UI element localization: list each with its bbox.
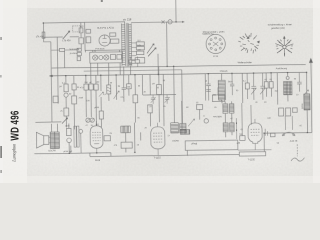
svg-text:Ausf. Bl: Ausf. Bl xyxy=(290,140,298,143)
node antenna drop xyxy=(42,23,44,37)
coil pair upper xyxy=(223,104,234,114)
dial cord line xyxy=(131,21,184,23)
column x108 coil blob xyxy=(108,75,110,85)
trimmer caps right pair 2 xyxy=(260,73,266,100)
trimmer arrow x101 xyxy=(99,92,104,97)
wires to IF coils xyxy=(174,66,183,123)
column x159 resistor 05 xyxy=(158,67,160,85)
svg-text:Schalterstellung v. hinten: Schalterstellung v. hinten xyxy=(268,23,293,26)
svg-text:μF/W 4μF: μF/W 4μF xyxy=(63,150,73,153)
column x205 xyxy=(204,74,206,101)
trimmer caps right pair 1 xyxy=(251,73,257,100)
wire coil to low rail xyxy=(306,72,309,132)
box Regl xyxy=(121,142,132,148)
IF can between V2 V3 xyxy=(212,95,224,102)
V1 electrodes xyxy=(92,121,101,153)
wire V3 anode to bus xyxy=(242,103,252,136)
wire box drop xyxy=(186,150,188,155)
caps pair x208 xyxy=(206,74,211,101)
dashed box fuse xyxy=(73,26,81,32)
mains transformer T1 left winding xyxy=(121,23,125,65)
tiny value labels xyxy=(36,16,305,164)
column x277 xyxy=(276,73,278,105)
wire drop x263 xyxy=(263,133,265,151)
speaker jack arc xyxy=(282,132,295,136)
socket pins xyxy=(208,37,222,51)
svg-text:PTR 0026: PTR 0026 xyxy=(95,47,105,50)
paper background xyxy=(0,0,320,183)
resistor block left of psu 2 xyxy=(77,53,81,56)
trimmer arrow x190 xyxy=(188,119,195,127)
wire to pot xyxy=(44,36,63,38)
trimmer 2 xyxy=(165,95,170,104)
svg-text:170 450: 170 450 xyxy=(62,39,71,42)
comps above jack xyxy=(279,108,284,116)
column x150 resistor xyxy=(149,75,151,95)
IF transformer coil mid xyxy=(221,74,223,81)
svg-text:U4/AB: U4/AB xyxy=(172,139,179,142)
caps right of V3 xyxy=(265,129,267,136)
wire selector to bus xyxy=(157,54,159,75)
wires speaker to OT xyxy=(49,124,58,143)
coil pair lower xyxy=(223,123,234,132)
wire dial drop xyxy=(166,22,169,66)
field coil hatched xyxy=(304,94,310,110)
band switch cluster 2 radial xyxy=(275,36,293,56)
column x135 resistor xyxy=(134,75,136,95)
V2 electrodes xyxy=(153,123,163,155)
wire from top edge xyxy=(175,0,177,22)
top edge tick xyxy=(101,0,103,2)
dial cord crossing xyxy=(162,20,165,23)
svg-text:T-1122: T-1122 xyxy=(153,156,161,159)
resistor in psu xyxy=(110,33,116,36)
transformer core lines xyxy=(127,23,129,66)
mains switch box xyxy=(59,48,64,51)
svg-text:Chassis: Chassis xyxy=(220,70,229,73)
resistor mains dropper xyxy=(79,38,84,44)
svg-text:2x: 2x xyxy=(168,134,170,137)
resistor bottom row 2 xyxy=(117,55,122,60)
rail under V3 xyxy=(238,149,272,151)
wire x66 down xyxy=(68,123,70,153)
svg-text:Röhrensockel v. unten: Röhrensockel v. unten xyxy=(203,30,225,33)
wire antenna col join xyxy=(44,37,51,42)
svg-text:1M: 1M xyxy=(117,85,120,88)
svg-text:AL4/VY2 u.AZ11: AL4/VY2 u.AZ11 xyxy=(97,26,115,29)
component column x96 xyxy=(95,75,98,126)
component column x91 xyxy=(90,75,92,84)
wire dropper down xyxy=(80,23,82,49)
wires near V2 left xyxy=(125,122,140,152)
voltage tap resistor 3 xyxy=(136,51,143,55)
wire pot to dropper xyxy=(70,36,79,38)
svg-text:8,5C/W: 8,5C/W xyxy=(48,149,56,152)
psu stubs to bus xyxy=(85,50,130,76)
resistor left small xyxy=(53,96,58,103)
svg-text:6,3V: 6,3V xyxy=(92,50,97,53)
bus A main rail xyxy=(50,72,307,76)
bottom left rail xyxy=(35,121,61,123)
entbrummer box xyxy=(129,60,140,64)
svg-text:Ausführung: Ausführung xyxy=(276,67,288,70)
small horiz coil x184 xyxy=(180,130,189,135)
small comp x271 xyxy=(270,133,275,137)
svg-text:μRegl: μRegl xyxy=(191,142,197,145)
variable resistor circle xyxy=(64,93,68,97)
resistor 780 left of V3 xyxy=(240,136,245,141)
resistor block left of psu xyxy=(77,48,81,51)
resistor bottom row xyxy=(110,54,115,59)
V3 electrodes xyxy=(250,119,259,150)
caps x299 xyxy=(297,72,302,91)
capacitor x247 xyxy=(245,83,249,89)
wire top rail xyxy=(43,21,84,24)
trimmer 1 xyxy=(151,95,156,104)
potentiometer arrow xyxy=(63,31,70,39)
svg-text:Wellenschalter: Wellenschalter xyxy=(238,61,253,64)
dial cord pulley xyxy=(168,20,172,24)
lamp sub box xyxy=(90,52,123,63)
component column x101 xyxy=(100,75,103,127)
trimmer row rail xyxy=(143,94,176,96)
resistor 220 xyxy=(79,28,83,33)
svg-text:U 11: U 11 xyxy=(213,55,219,58)
trimmer arrow right xyxy=(304,90,309,96)
jack circle x66 xyxy=(67,138,72,143)
voltage selector switch arrows xyxy=(147,44,156,57)
speaker LS xyxy=(44,136,49,145)
component column x74 xyxy=(73,76,75,84)
svg-text:20000: 20000 xyxy=(301,103,304,109)
svg-text:Lumophon: Lumophon xyxy=(11,144,17,163)
resistor x148 lower xyxy=(148,105,153,113)
output transformer hatched xyxy=(50,132,59,149)
wire stub xyxy=(71,145,111,157)
svg-text:μF/W: μF/W xyxy=(94,106,99,109)
lamp L2 xyxy=(99,56,103,60)
resistor right of V1 xyxy=(104,136,110,141)
voltage tap resistor 2 xyxy=(136,46,144,50)
bus A left arrow xyxy=(49,75,52,76)
column x242 xyxy=(241,73,243,103)
mains transformer T1 right winding xyxy=(129,23,132,65)
svg-text:gesehen (LW): gesehen (LW) xyxy=(271,27,285,30)
extra micro labels xyxy=(60,77,303,147)
psu left rects xyxy=(86,29,91,33)
tube V2 xyxy=(151,127,165,149)
rectifier tube V4 circle xyxy=(99,35,110,46)
wire x196 xyxy=(182,101,200,129)
resistor in psu 2 xyxy=(110,39,119,43)
IF coil left pair xyxy=(171,123,186,133)
bus B rail xyxy=(52,64,306,68)
caps x232 xyxy=(230,73,235,95)
misc small box x199 xyxy=(197,105,203,110)
svg-text:110-240V: 110-240V xyxy=(69,52,78,55)
svg-text:1103: 1103 xyxy=(95,159,101,162)
wire vertical left column xyxy=(51,37,59,122)
lamp L3 xyxy=(104,55,109,60)
resistor 100 xyxy=(128,75,130,84)
power unit box xyxy=(85,22,125,51)
bottom rail left 2 xyxy=(90,154,239,156)
trimmer circles pair xyxy=(86,118,90,122)
voltage tap resistor 1 xyxy=(136,42,144,46)
voltage tap box low xyxy=(135,58,145,64)
small circle x205 xyxy=(204,119,208,123)
ground curve xyxy=(291,158,305,162)
column x163 xyxy=(162,74,165,126)
svg-text:ca. 218: ca. 218 xyxy=(123,18,132,21)
component column x66 capacitor xyxy=(65,76,67,84)
capacitor block x66 xyxy=(66,128,71,135)
wire right drop xyxy=(310,62,313,132)
page margins light xyxy=(0,0,27,183)
tube socket view U11 xyxy=(206,34,225,53)
pot circle x80 xyxy=(79,129,83,133)
column x116 pot arrow xyxy=(115,75,117,100)
svg-text:+Pol 68V: +Pol 68V xyxy=(213,115,223,118)
component column x86 xyxy=(85,75,87,84)
band switch cluster 1 xyxy=(238,33,259,54)
column x123 caps xyxy=(121,75,126,102)
svg-text:17k 450: 17k 450 xyxy=(36,35,45,38)
mains lead wire xyxy=(51,50,79,68)
tube V3 xyxy=(248,123,262,144)
rectifier tube pins xyxy=(102,35,107,43)
svg-text:T-1132: T-1132 xyxy=(247,158,255,161)
trimmer arrows bottom left xyxy=(62,118,68,124)
resistor ladder x75 xyxy=(74,126,79,147)
lamp L1 xyxy=(93,55,98,60)
flat box below V3 xyxy=(239,152,265,156)
output tube V1 xyxy=(90,126,103,149)
wire x236 dotted xyxy=(235,118,237,139)
arrow node top right xyxy=(309,59,312,63)
low right rail xyxy=(264,131,312,134)
resistor pair 05 05 xyxy=(266,73,271,82)
long box bottom xyxy=(185,140,238,150)
coil small horiz xyxy=(121,126,131,133)
IF wires xyxy=(218,87,232,137)
page left edge xyxy=(0,0,3,183)
resistor x101 xyxy=(99,111,103,119)
bottom rail left xyxy=(34,153,110,154)
tap leads xyxy=(131,43,136,61)
column x142 xyxy=(141,75,143,95)
svg-text:Netzanschl.: Netzanschl. xyxy=(69,48,79,51)
bus C rail xyxy=(84,70,182,71)
resistor block left of psu 3 xyxy=(77,57,80,61)
svg-text:WD 496: WD 496 xyxy=(8,110,21,140)
ground dashed xyxy=(296,144,298,156)
crosshatch IF can xyxy=(287,73,289,77)
resistor dropper 17k xyxy=(42,32,45,38)
svg-text:2M: 2M xyxy=(152,82,155,85)
svg-text:1W: 1W xyxy=(275,90,278,93)
svg-text:2M: 2M xyxy=(59,85,62,88)
resistor column x66 xyxy=(64,108,69,116)
